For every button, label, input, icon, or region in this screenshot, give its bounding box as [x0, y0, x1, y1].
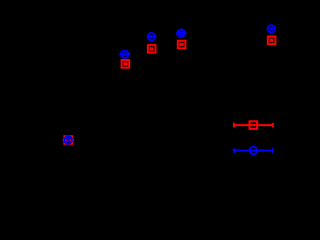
- data point P1 blue (error bar + marker): [65, 136, 72, 143]
- data point P3 blue (error bar + marker): [147, 33, 156, 40]
- data point P1 red (error bar + marker): [63, 136, 74, 144]
- data point P3 red (error bar + marker): [148, 45, 156, 53]
- data point P2 blue (error bar + marker): [119, 51, 130, 58]
- data point P4 red (error bar + marker): [178, 41, 186, 49]
- legend sample blue (xerrorbar line with caps + marker): [233, 147, 274, 154]
- data point P5 red (error bar + marker): [268, 37, 276, 45]
- data point P5 blue (error bar + marker): [268, 25, 275, 32]
- data point P2 red (error bar + marker): [122, 60, 130, 68]
- data point P4 blue (error bar + marker): [176, 30, 186, 37]
- legend sample red (xerrorbar line with caps + marker): [233, 121, 274, 129]
